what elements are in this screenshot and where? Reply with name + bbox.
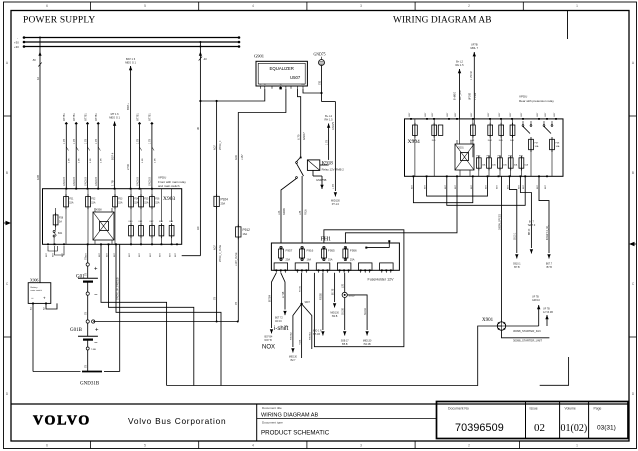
svg-text:FuseHolder 12V: FuseHolder 12V <box>368 278 395 282</box>
wire K918 GND75B arrow down <box>313 170 327 189</box>
wire stub arrow UF7A above X904 <box>455 60 465 119</box>
svg-text:MEG G 1: MEG G 1 <box>125 60 136 64</box>
wire arrow stub S910-1 <box>510 176 522 268</box>
svg-text:1 7B: 1 7B <box>110 180 114 186</box>
svg-text:F58: F58 <box>59 217 64 220</box>
FH1 fuse F957 <box>279 246 293 261</box>
X904 right fuses <box>529 137 560 160</box>
svg-text:Battery: Battery <box>31 286 39 289</box>
FH1 fuse F955 <box>321 246 335 261</box>
junction S910 <box>342 273 355 298</box>
svg-text:MDL 7: MDL 7 <box>471 46 479 50</box>
svg-text:GND3 B: GND3 B <box>95 177 98 186</box>
svg-text:Document type: Document type <box>262 421 283 425</box>
svg-text:L1ST_FUSE: L1ST_FUSE <box>235 252 238 266</box>
svg-text:BAT_A30: BAT_A30 <box>459 90 462 100</box>
svg-text:6.70: 6.70 <box>297 134 301 140</box>
connector box X904 VPDU rear <box>405 95 564 177</box>
svg-text:25A: 25A <box>350 258 355 262</box>
wire i-shift branch 2 <box>275 273 287 323</box>
svg-text:16A: 16A <box>307 258 312 262</box>
svg-text:03(31): 03(31) <box>597 425 616 432</box>
svg-text:K908: K908 <box>96 209 102 212</box>
svg-text:15A: 15A <box>91 202 96 205</box>
svg-text:5A: 5A <box>59 221 62 224</box>
wire bus drop left to X906 <box>32 37 42 283</box>
svg-text:MT7B1: MT7B1 <box>95 113 98 121</box>
svg-text:10A: 10A <box>535 145 539 148</box>
relay K2001 inside X904 <box>455 140 474 170</box>
svg-text:F957B2: F957B2 <box>291 332 293 340</box>
wire S910 down arrow <box>341 298 350 346</box>
svg-text:UF30B: UF30B <box>469 92 471 100</box>
connector box X903 VPDU front <box>43 176 187 245</box>
svg-text:NO7 B: NO7 B <box>265 339 273 342</box>
X903 bottom pins <box>46 243 178 257</box>
svg-text:POWER SUPPLY: POWER SUPPLY <box>23 16 95 26</box>
svg-text:A0: A0 <box>196 226 200 230</box>
svg-text:Document No: Document No <box>448 407 469 411</box>
svg-text:B+MEG: B+MEG <box>455 92 457 100</box>
junction X901 <box>482 318 506 330</box>
svg-text:U507: U507 <box>290 75 301 80</box>
wire FH1 feed loop upper <box>314 230 404 347</box>
svg-text:1 7B: 1 7B <box>325 140 328 145</box>
wire equalizer gnd pin to GND75 drop <box>303 89 323 94</box>
wire X904 loop C <box>447 176 525 205</box>
wire arrow stub B07 <box>539 176 553 268</box>
battery G01 <box>76 263 98 320</box>
svg-text:B0 7B: B0 7B <box>332 288 334 295</box>
svg-text:MEG G 1: MEG G 1 <box>109 116 120 120</box>
svg-text:MID130: MID130 <box>289 357 298 359</box>
svg-text:7B: 7B <box>85 365 88 368</box>
svg-text:I55 1B: I55 1B <box>313 333 320 336</box>
svg-text:-50: -50 <box>32 58 36 62</box>
X904 fuse row lower <box>476 156 523 171</box>
svg-text:25A: 25A <box>286 258 291 262</box>
svg-text:36: 36 <box>280 84 282 86</box>
svg-text:1 7B: 1 7B <box>84 139 87 144</box>
svg-text:F957: F957 <box>286 249 293 253</box>
bus bar minus <box>17 36 240 40</box>
svg-text:B07B4: B07B4 <box>269 294 271 302</box>
svg-text:Issue: Issue <box>530 407 538 411</box>
wire block3b down arrow short <box>330 273 339 318</box>
svg-text:30098_SPEED: 30098_SPEED <box>498 214 501 230</box>
svg-text:AD7: AD7 <box>213 145 216 150</box>
svg-text:−: − <box>94 293 98 299</box>
svg-text:RH 1.5: RH 1.5 <box>325 117 334 121</box>
svg-text:3: 3 <box>360 444 362 448</box>
title block volume cell <box>560 402 588 439</box>
svg-text:F956: F956 <box>350 249 357 253</box>
svg-text:EQUALIZER: EQUALIZER <box>270 66 294 71</box>
svg-text:X906: X906 <box>30 278 39 282</box>
svg-text:GND3 B: GND3 B <box>136 177 139 186</box>
svg-text:i-shift: i-shift <box>274 326 289 332</box>
svg-text:MT7B1: MT7B1 <box>136 113 139 121</box>
svg-text:B: B <box>632 171 634 175</box>
wire arrow stub MID130 <box>331 176 340 206</box>
FH1 connector blocks <box>274 263 393 273</box>
X903 fuse row upper <box>64 194 160 209</box>
svg-text:Volvo Bus Corporation: Volvo Bus Corporation <box>128 416 226 426</box>
svg-text:B+ L2: B+ L2 <box>325 114 332 118</box>
svg-text:F51: F51 <box>69 198 74 201</box>
svg-text:WIRING DIAGRAM AB: WIRING DIAGRAM AB <box>393 15 492 25</box>
svg-text:main switch: main switch <box>31 289 43 292</box>
X904 bottom pins <box>411 175 547 189</box>
frame zone ticks top edge <box>46 2 578 11</box>
svg-text:BB 03: BB 03 <box>529 228 531 235</box>
cable stub bank above X903 <box>63 113 156 189</box>
svg-text:F916: F916 <box>307 249 314 253</box>
svg-text:1.0R: 1.0R <box>154 158 156 163</box>
svg-text:L1B7: L1B7 <box>241 154 244 160</box>
svg-text:MT 1 6: MT 1 6 <box>111 112 120 116</box>
wire K918 coil to FH1 F916 <box>299 176 308 243</box>
bus bar +30 B <box>14 45 240 49</box>
svg-text:15A: 15A <box>69 202 74 205</box>
svg-text:2: 2 <box>468 444 470 448</box>
svg-text:4: 4 <box>252 444 254 448</box>
wire X903 step routes to bottom rail <box>101 244 221 385</box>
heading WIRING DIAGRAM AB <box>393 15 492 25</box>
svg-text:BAT+: BAT+ <box>126 103 130 110</box>
svg-text:K2001: K2001 <box>457 148 464 150</box>
svg-text:1 7B: 1 7B <box>136 139 139 144</box>
svg-text:3: 3 <box>360 4 362 8</box>
wire X904 loop A <box>413 176 472 202</box>
svg-text:30: 30 <box>196 126 200 130</box>
svg-text:5: 5 <box>144 4 146 8</box>
svg-text:MT7B1: MT7B1 <box>63 113 66 121</box>
svg-text:1 7B: 1 7B <box>73 139 76 144</box>
svg-text:GND: GND <box>301 84 306 86</box>
svg-text:1 1/2W: 1 1/2W <box>475 92 477 100</box>
svg-text:30098_STARTER_UNIT: 30098_STARTER_UNIT <box>513 339 542 343</box>
wire K918 stub arrow up <box>320 114 333 165</box>
cable stub arrow MID <box>109 112 120 189</box>
wire X903 to battery G01 <box>85 244 88 262</box>
ground GND31B <box>80 372 102 387</box>
svg-text:1.0R: 1.0R <box>69 158 71 163</box>
svg-text:02: 02 <box>534 422 545 434</box>
title block document number cell <box>437 402 629 439</box>
connector X906 <box>28 278 51 310</box>
fuse P924 <box>213 194 228 321</box>
svg-text:GND75: GND75 <box>314 53 326 57</box>
svg-text:I57.B: I57.B <box>514 266 520 269</box>
svg-text:1 7B: 1 7B <box>95 139 98 144</box>
svg-text:I52 2B: I52 2B <box>364 343 371 346</box>
wire X901 starter unit stub <box>543 308 553 327</box>
svg-text:I55.B: I55.B <box>342 343 348 346</box>
wire X903 ground chain GND31 <box>104 244 120 371</box>
label i-shift <box>274 326 289 332</box>
wire GND75 down <box>318 66 335 177</box>
svg-text:GND7: GND7 <box>302 132 306 140</box>
svg-text:GND3 B: GND3 B <box>84 177 87 186</box>
svg-text:L7B: L7B <box>343 283 345 288</box>
svg-text:PRODUCT SCHEMATIC: PRODUCT SCHEMATIC <box>261 430 330 437</box>
svg-text:GND3 B: GND3 B <box>149 177 152 186</box>
svg-text:AD7: AD7 <box>213 245 216 250</box>
svg-text:Tail 7.0: Tail 7.0 <box>528 224 536 227</box>
title block page cell <box>589 402 616 439</box>
svg-text:1.0R: 1.0R <box>142 158 144 163</box>
company name Volvo Bus Corporation <box>128 416 226 426</box>
svg-text:7B: 7B <box>85 273 88 276</box>
wire X903 left pin steps <box>48 246 64 255</box>
svg-text:F955: F955 <box>328 249 335 253</box>
svg-text:1: 1 <box>576 444 578 448</box>
svg-text:-40: -40 <box>203 57 207 61</box>
svg-text:+: + <box>43 296 46 301</box>
svg-text:G08 10: G08 10 <box>532 299 541 302</box>
svg-text:16B: 16B <box>36 175 40 180</box>
svg-text:VPDU_F_FUSE: VPDU_F_FUSE <box>219 244 222 262</box>
label NOX <box>262 345 275 351</box>
svg-text:F52: F52 <box>91 198 96 201</box>
frame centering arrow right <box>629 242 637 246</box>
svg-text:L7 SB: L7 SB <box>283 291 285 298</box>
svg-text:P912: P912 <box>243 228 251 232</box>
svg-text:30098_STARTER_IGN: 30098_STARTER_IGN <box>513 329 541 333</box>
wire X901 starter ign <box>506 296 541 333</box>
svg-text:6: 6 <box>46 4 48 8</box>
svg-text:Volume: Volume <box>565 407 576 411</box>
svg-text:F56: F56 <box>155 198 160 201</box>
FH1 link jumpers <box>365 240 390 248</box>
svg-text:−: − <box>31 296 34 301</box>
wire stub arrow UF7B above X904 <box>469 43 478 119</box>
frame zone ticks left edge <box>4 61 12 396</box>
equalizer G901 U507 <box>254 54 307 90</box>
FH1 fuse F916 <box>300 246 314 261</box>
svg-text:B: B <box>6 171 8 175</box>
wire Y junction under block2 <box>289 273 312 362</box>
svg-text:25A: 25A <box>328 258 333 262</box>
svg-text:WIRING DIAGRAM AB: WIRING DIAGRAM AB <box>261 412 318 418</box>
svg-text:MT7B1: MT7B1 <box>73 113 76 121</box>
fuse holder FH1 box <box>271 237 399 282</box>
wire K918 to FH1 F957 <box>278 178 297 243</box>
svg-text:T50B: T50B <box>299 339 301 345</box>
svg-text:AD8: AD8 <box>235 155 238 160</box>
frame divider top right <box>567 11 569 40</box>
svg-text:40SW 7.0_W_: 40SW 7.0_W_ <box>547 224 549 240</box>
wire X901 down to stub right <box>502 330 550 342</box>
svg-text:GND3 B: GND3 B <box>63 177 66 186</box>
wire block3 down arrow <box>313 273 325 336</box>
svg-text:Page: Page <box>594 407 602 411</box>
svg-text:B+ L2: B+ L2 <box>456 60 463 64</box>
svg-text:F955B: F955B <box>321 293 323 300</box>
svg-text:I52.7: I52.7 <box>290 360 296 362</box>
wire bottom right step <box>540 357 569 385</box>
X904 fuse row upper <box>413 123 515 142</box>
svg-text:1 150 W: 1 150 W <box>471 71 473 80</box>
svg-text:X903: X903 <box>163 196 175 202</box>
wire i-shift branch 1 <box>265 273 277 342</box>
wire arrow stub S910-2 <box>520 176 535 253</box>
svg-text:25A: 25A <box>221 202 226 206</box>
X903 top pins <box>65 188 152 190</box>
svg-text:70396509: 70396509 <box>455 422 504 434</box>
relay K908 inside X903 <box>93 208 114 244</box>
title block outline <box>11 403 629 405</box>
svg-text:2.5R: 2.5R <box>126 164 130 170</box>
wire battery feed stub with arrow <box>125 57 136 189</box>
svg-text:S907: S907 <box>305 302 311 304</box>
svg-text:10A: 10A <box>556 145 560 148</box>
svg-text:B41: B41 <box>58 232 63 235</box>
svg-text:30: 30 <box>264 84 266 86</box>
svg-text:VOLVO: VOLVO <box>33 414 91 429</box>
svg-text:F55: F55 <box>144 198 149 201</box>
Volvo logo <box>33 414 91 429</box>
svg-text:5: 5 <box>144 444 146 448</box>
X903 fuse F58 lower left <box>53 213 64 227</box>
svg-text:RH 1.5: RH 1.5 <box>455 63 464 67</box>
wire X904 loop B <box>427 176 488 196</box>
svg-text:MT7B1: MT7B1 <box>84 113 87 121</box>
frame centering arrow left <box>4 221 12 225</box>
svg-text:Document title: Document title <box>262 406 282 410</box>
fuse P912 <box>235 225 250 322</box>
X904 relay contact switches <box>522 121 553 134</box>
svg-text:1.0R: 1.0R <box>101 158 103 163</box>
svg-text:GND31B: GND31B <box>80 382 100 387</box>
wire equalizer pin36 to P912 <box>235 89 286 227</box>
wire S910 right branch arrow <box>347 295 372 346</box>
svg-text:VPDU_F: VPDU_F <box>219 140 222 150</box>
svg-text:1: 1 <box>576 4 578 8</box>
svg-text:7B: 7B <box>85 312 88 315</box>
wire equalizer pin30 to bus drop <box>199 89 265 102</box>
X903 switch S41 contacts <box>53 231 63 238</box>
svg-text:12 V3 4B: 12 V3 4B <box>543 311 553 314</box>
svg-text:UF7B: UF7B <box>471 43 478 47</box>
svg-text:FH1: FH1 <box>321 237 332 243</box>
svg-text:GND31_W_GND31B: GND31_W_GND31B <box>116 277 119 300</box>
title block issue cell <box>526 402 546 439</box>
svg-text:P7-1.0: P7-1.0 <box>332 203 340 206</box>
svg-text:+30: +30 <box>14 41 19 45</box>
svg-text:P924: P924 <box>221 197 229 201</box>
svg-text:NOX: NOX <box>262 345 275 351</box>
wire battery plus rail <box>93 321 239 323</box>
svg-text:X901: X901 <box>482 318 494 323</box>
svg-text:6: 6 <box>46 444 48 448</box>
svg-text:K918: K918 <box>322 162 334 167</box>
svg-text:GND75: GND75 <box>332 121 335 130</box>
svg-text:Relay 12V RMB 2: Relay 12V RMB 2 <box>322 168 345 172</box>
svg-text:F957B1: F957B1 <box>310 332 312 340</box>
X904 interior wires <box>415 119 552 176</box>
svg-text:+30: +30 <box>14 45 19 49</box>
svg-text:+: + <box>95 328 99 334</box>
svg-text:S910.1: S910.1 <box>515 232 517 240</box>
title block document title cell <box>257 404 437 441</box>
wire FH1 feed loop lower <box>345 176 457 243</box>
frame zone ticks right edge <box>629 61 637 396</box>
K918 switch contact <box>296 157 304 179</box>
svg-text:1 7B: 1 7B <box>63 139 66 144</box>
relay K918 <box>307 160 344 172</box>
svg-text:1.0R: 1.0R <box>79 158 81 163</box>
svg-text:700: 700 <box>318 80 321 85</box>
svg-text:I20 16: I20 16 <box>275 320 282 323</box>
svg-text:T-BB: T-BB <box>91 349 96 351</box>
svg-text:Rear with pretension relay: Rear with pretension relay <box>519 99 554 103</box>
svg-text:30098: 30098 <box>283 208 286 215</box>
svg-text:7B: 7B <box>85 257 88 260</box>
heading POWER SUPPLY <box>23 16 95 26</box>
svg-text:1 7B: 1 7B <box>149 139 152 144</box>
svg-text:F53: F53 <box>118 198 123 201</box>
FH1 fuse F956 <box>343 246 357 261</box>
svg-text:G901: G901 <box>254 54 264 59</box>
wire X906 pin2 jog <box>46 303 57 309</box>
svg-text:+: + <box>94 267 98 273</box>
svg-text:15A: 15A <box>118 202 123 205</box>
wire tap to P924 <box>213 101 222 196</box>
svg-text:−: − <box>94 341 98 347</box>
svg-text:B07 4: B07 4 <box>110 152 114 160</box>
X904 top pins <box>409 112 557 120</box>
svg-text:MT7B1: MT7B1 <box>149 113 152 121</box>
wire X901 ground return <box>167 326 502 386</box>
svg-text:L7B: L7B <box>299 210 302 215</box>
svg-text:BAT 1 6: BAT 1 6 <box>126 57 136 61</box>
wire bus drop right <box>182 41 208 256</box>
svg-text:GND75B: GND75B <box>316 178 327 182</box>
X903 fuse row lower <box>129 221 174 238</box>
svg-text:F916: F916 <box>305 209 308 215</box>
svg-text:1.0R: 1.0R <box>90 158 92 163</box>
svg-text:15A: 15A <box>134 202 139 205</box>
svg-text:15A: 15A <box>144 202 149 205</box>
svg-text:I52.B: I52.B <box>332 315 338 318</box>
svg-text:VPDU: VPDU <box>158 176 166 180</box>
svg-text:-: - <box>17 36 18 40</box>
svg-text:7B: 7B <box>213 297 216 300</box>
svg-text:GND3 B: GND3 B <box>73 177 76 186</box>
frame zone ticks bottom edge <box>46 441 578 449</box>
svg-text:S910B: S910B <box>343 308 345 315</box>
svg-text:L 7B: L 7B <box>332 184 335 189</box>
wire equalizer to relay K918 <box>297 89 307 157</box>
bus bar +30 A <box>14 41 240 45</box>
svg-text:I57.B: I57.B <box>546 266 552 269</box>
svg-text:S910A: S910A <box>364 308 367 315</box>
svg-text:F9 7B: F9 7B <box>299 286 301 292</box>
svg-text:4: 4 <box>252 4 254 8</box>
svg-text:01(02): 01(02) <box>561 423 588 434</box>
svg-text:VPDU: VPDU <box>519 95 527 99</box>
battery G01B <box>70 320 99 372</box>
ground symbol GND75 <box>314 53 326 66</box>
svg-text:2: 2 <box>468 4 470 8</box>
svg-text:15A: 15A <box>155 202 160 205</box>
svg-text:16A: 16A <box>243 232 248 236</box>
svg-text:7B: 7B <box>235 302 238 305</box>
wire X906 to ground rail <box>33 303 81 371</box>
svg-text:16: 16 <box>36 76 40 80</box>
